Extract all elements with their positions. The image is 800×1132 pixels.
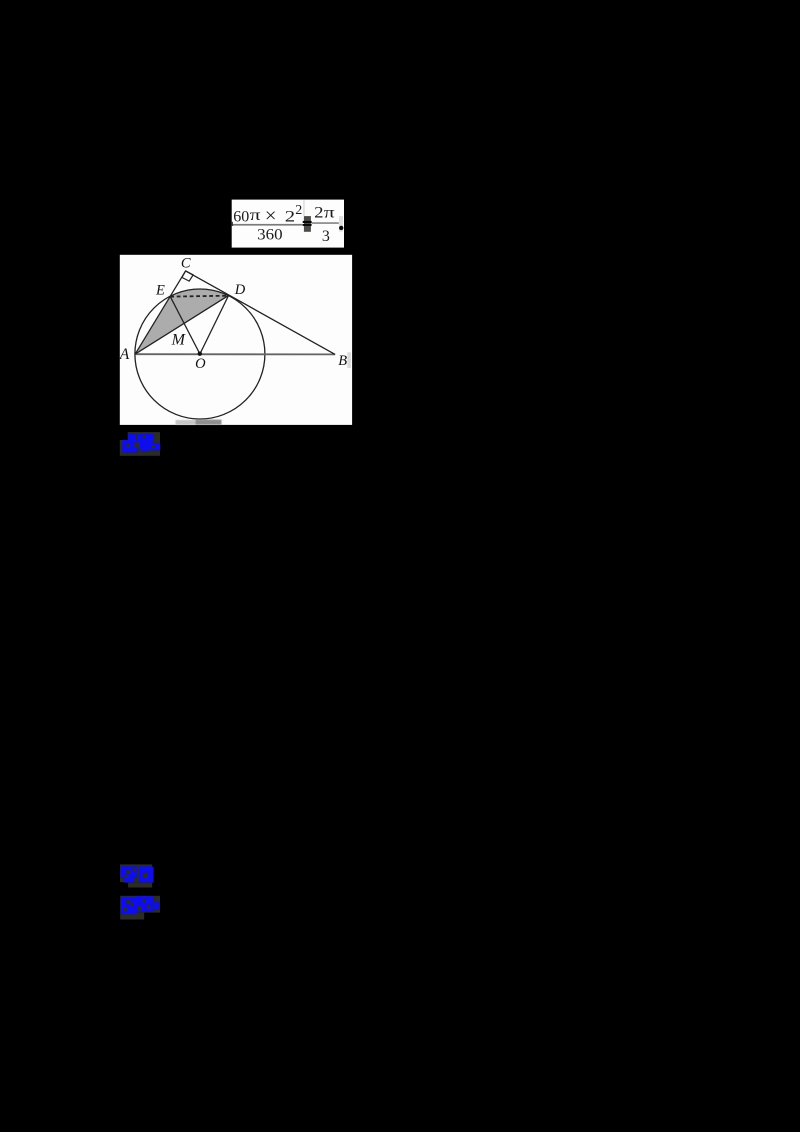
figure white box — [120, 255, 352, 425]
blue tag 3 glyph strokes — [122, 897, 160, 915]
line AB — [135, 353, 335, 355]
svg-text:60: 60 — [233, 209, 249, 226]
line AC through E — [135, 271, 185, 354]
light gray strip right of second fraction — [339, 216, 343, 232]
center dot O — [198, 352, 202, 356]
svg-text:π: π — [324, 205, 335, 222]
svg-text:π: π — [250, 207, 261, 224]
line DO — [200, 295, 229, 354]
svg-text:2: 2 — [285, 209, 295, 226]
line DA — [135, 295, 228, 354]
blue tag 2 glyph strokes — [121, 867, 154, 883]
fraction bar 2 — [312, 222, 339, 224]
svg-text:B: B — [338, 353, 347, 369]
formula numerator 60π×2² — [233, 203, 302, 227]
blue tag 1 glyph strokes — [123, 434, 161, 453]
svg-text:A: A — [119, 346, 130, 363]
svg-text:3: 3 — [322, 228, 330, 245]
svg-text:360: 360 — [257, 227, 282, 244]
blue tag 3 glyph holes — [127, 900, 131, 904]
blue tag 2 glyph holes — [127, 871, 131, 875]
svg-text:C: C — [181, 256, 191, 272]
line CB through D — [186, 271, 336, 355]
blue tag 1 dark background — [128, 432, 160, 456]
period dot — [339, 226, 343, 230]
blue tag 1 glyph holes — [135, 443, 140, 448]
right angle mark at C — [182, 271, 193, 281]
svg-text:M: M — [171, 332, 187, 349]
blue tag 3 dark background — [120, 896, 160, 913]
formula numerator 2π — [314, 205, 335, 222]
svg-text:2: 2 — [295, 203, 302, 218]
equals sign dark block — [304, 216, 311, 232]
caret light line above equals — [303, 200, 304, 216]
svg-text:E: E — [155, 282, 165, 298]
circle O — [135, 289, 265, 419]
line EO — [170, 296, 200, 354]
dashed chord ED — [170, 295, 228, 298]
equals sign black bars — [303, 221, 312, 223]
svg-text:2: 2 — [314, 205, 323, 222]
svg-text:D: D — [234, 282, 246, 298]
svg-text:O: O — [195, 356, 206, 372]
blue tag 2 dark background — [120, 864, 152, 882]
gray smudge at circle bottom — [176, 420, 222, 425]
light strip right of label B — [347, 352, 351, 368]
fraction bar 1 — [232, 224, 303, 226]
svg-text:×: × — [265, 205, 277, 227]
formula white box — [232, 200, 344, 248]
fraction bar 1 left tick — [232, 222, 233, 226]
shaded segment region A-E-arc-D — [135, 289, 228, 354]
